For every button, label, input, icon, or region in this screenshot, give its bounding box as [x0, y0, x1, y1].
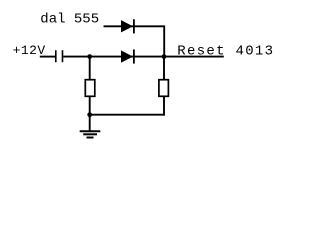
svg-text:Reset 4013: Reset 4013: [177, 44, 274, 60]
svg-text:+12V: +12V: [13, 43, 46, 58]
svg-text:dal 555: dal 555: [40, 11, 99, 27]
